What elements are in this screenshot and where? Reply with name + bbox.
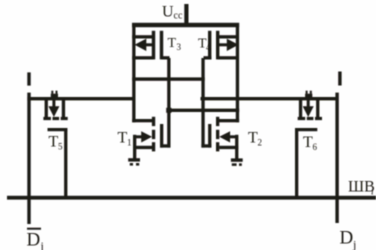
wire right horizontal (right gates over node B to T6) xyxy=(201,97,337,100)
wire T1 drain lead xyxy=(132,119,153,122)
transistor T4 xyxy=(204,31,239,60)
svg-text:2: 2 xyxy=(258,138,263,148)
wire left bit line stub xyxy=(27,72,30,85)
label D-bar overbar xyxy=(27,228,41,230)
ground under T1 xyxy=(128,158,140,165)
svg-text:D: D xyxy=(27,230,41,250)
wire word line W3 left (bit line to node A) xyxy=(27,97,133,100)
wire left bit line xyxy=(27,93,30,224)
node Ucc label xyxy=(0,0,1,1)
wire cross-couple B to left gates xyxy=(167,109,239,112)
svg-text:T: T xyxy=(168,36,177,51)
ground under T2 xyxy=(231,158,243,166)
svg-text:6: 6 xyxy=(313,142,318,152)
svg-text:cc: cc xyxy=(174,11,183,22)
svg-text:T: T xyxy=(49,134,59,151)
wire right bit line stub xyxy=(338,72,341,86)
wire right bit line xyxy=(335,93,338,223)
svg-text:3: 3 xyxy=(177,42,182,52)
svg-text:T: T xyxy=(248,130,258,147)
wire node A left bus (Vcc to T1 drain) xyxy=(132,27,135,122)
transistor T5 xyxy=(43,91,67,198)
wire top power rail xyxy=(132,23,239,27)
svg-text:T: T xyxy=(118,130,128,147)
Ucc terminal stub xyxy=(184,4,188,25)
transistor T6 xyxy=(295,91,322,198)
svg-text:T: T xyxy=(303,134,313,151)
svg-text:j: j xyxy=(352,238,356,250)
wire right gates vertical (T4 gate to T2 gate) xyxy=(201,58,204,148)
svg-text:D: D xyxy=(340,228,354,249)
wire node B right bus (Vcc to T2 drain) xyxy=(236,27,239,122)
wire left gates vertical (T3 gate to T1 gate) xyxy=(167,58,170,148)
svg-text:4: 4 xyxy=(206,43,211,53)
svg-text:j: j xyxy=(40,239,44,250)
svg-text:5: 5 xyxy=(58,142,63,152)
svg-text:1: 1 xyxy=(127,138,132,148)
node junction dot left gates xyxy=(166,108,171,113)
svg-text:i: i xyxy=(371,187,374,198)
transistor T3 xyxy=(132,31,169,60)
wire cross-couple A to right gates xyxy=(132,77,205,80)
wire T2 drain lead xyxy=(218,119,240,122)
transistor T1 xyxy=(133,117,171,159)
transistor T2 xyxy=(201,117,238,159)
svg-text:U: U xyxy=(162,4,174,21)
wire word select rail xyxy=(7,196,376,200)
